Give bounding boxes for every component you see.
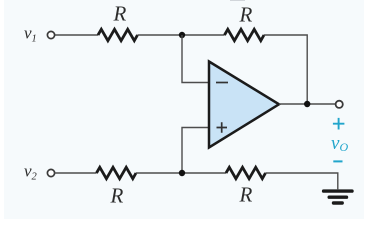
op-amp minus sign — [216, 82, 228, 84]
ground — [324, 191, 352, 203]
wire: node B up and right to non-inverting input — [182, 128, 209, 174]
svg-text:vO: vO — [331, 133, 348, 154]
wire: R2 to feedback corner, down to output node — [264, 35, 307, 104]
svg-text:R: R — [113, 1, 127, 25]
node C (output junction) — [304, 101, 310, 107]
svg-text:v1: v1 — [24, 23, 37, 44]
svg-text:R: R — [239, 182, 253, 206]
resistor R2 — [225, 29, 265, 40]
resistor R4 — [226, 167, 266, 178]
svg-text:R: R — [239, 2, 253, 26]
top edge crop artifact — [230, 0, 245, 2]
svg-text:R: R — [110, 183, 124, 207]
wire: v2 terminal to R3 — [55, 172, 97, 174]
terminal v2 (open circle) — [47, 169, 54, 176]
op-amp U1 — [209, 62, 279, 148]
terminal v1 (open circle) — [47, 31, 54, 38]
terminal vo (open circle) — [336, 101, 343, 108]
label - (output polarity) — [333, 160, 342, 162]
wire: node A down and right to inverting input — [182, 35, 209, 83]
label + (output polarity) — [333, 118, 345, 130]
wire: v1 terminal to R1 — [55, 34, 99, 36]
node A (top junction) — [179, 32, 185, 38]
resistor R1 — [98, 29, 138, 40]
wire: R1 to node A — [138, 34, 225, 36]
op-amp plus sign — [217, 122, 228, 133]
svg-text:v2: v2 — [24, 162, 38, 183]
node B (bottom junction) — [179, 170, 185, 176]
resistor R3 — [97, 167, 137, 178]
wire: R4 to ground corner — [265, 173, 337, 189]
wire: R3 to node B — [136, 172, 226, 174]
wire: op-amp output to terminal — [279, 103, 335, 105]
